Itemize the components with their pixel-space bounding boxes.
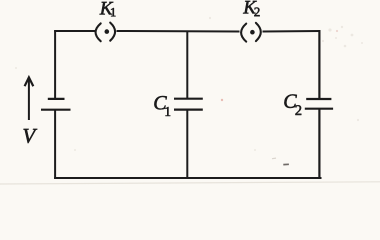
wire: top bus, middle segment (switch K1 to switch K2, through node at x=187) bbox=[117, 30, 240, 33]
wire: top bus, right segment (switch K2 to top-right corner) bbox=[263, 30, 321, 33]
label C2 bbox=[284, 94, 301, 114]
wire: middle branch upper (top bus node down to capacitor C1 top plate) bbox=[186, 31, 188, 98]
wire: top bus, left segment (top-left corner to switch K1) bbox=[54, 30, 95, 32]
wire: bottom bus (bottom-left corner to bottom-right corner) bbox=[54, 177, 321, 179]
switch K2 (press key: left paren, contact dot, right paren) bbox=[241, 23, 261, 42]
label K1 bbox=[100, 2, 116, 16]
wire: left branch lower (battery negative plate down to bottom-left corner) bbox=[54, 110, 56, 179]
wire: right branch upper (top-right corner down to capacitor C2 top plate) bbox=[318, 30, 320, 98]
wire: right branch lower (capacitor C2 bottom plate down to bottom-right corner) bbox=[318, 109, 320, 178]
label C1 bbox=[154, 96, 170, 116]
label K2 bbox=[243, 1, 259, 16]
battery V (cell: short top plate, long bottom plate) bbox=[41, 99, 71, 110]
paper background / decorative scan noise (unlabelled) bbox=[0, 0, 380, 188]
switch K1 (press key: left paren, contact dot, right paren) bbox=[96, 23, 116, 42]
wire: left branch upper (top-left corner down to battery positive plate) bbox=[54, 30, 56, 98]
wire: middle branch lower (capacitor C1 bottom plate down to bottom bus junction) bbox=[186, 110, 188, 178]
arrow: emf direction of source V bbox=[25, 77, 34, 120]
capacitor C1 (two equal parallel plates) bbox=[174, 99, 203, 110]
label V (source value) bbox=[24, 129, 38, 143]
capacitor C2 (two equal parallel plates) bbox=[305, 99, 333, 109]
